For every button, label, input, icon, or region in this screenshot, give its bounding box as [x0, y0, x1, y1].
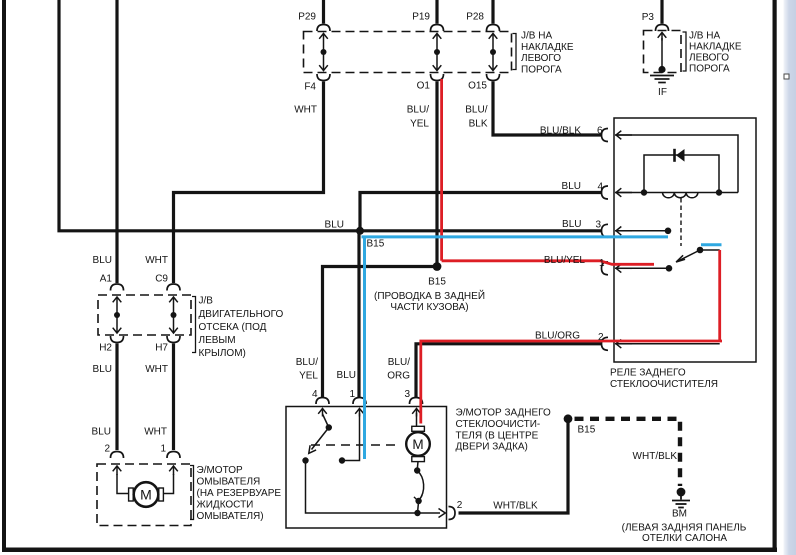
relay wire pin1 to contact	[615, 267, 669, 269]
svg-text:BLU: BLU	[562, 219, 581, 230]
connector relay pin 6 female	[602, 129, 609, 142]
wiper motor lower stem	[416, 462, 419, 470]
ground IF bars	[650, 76, 674, 83]
wire BLU node down to wiper pin1	[357, 231, 360, 397]
svg-text:ТЕЛЯ (В ЦЕНТРЕ: ТЕЛЯ (В ЦЕНТРЕ	[456, 430, 539, 441]
red trace along O1 wire	[440, 79, 443, 261]
svg-text:M: M	[140, 487, 152, 503]
svg-text:A1: A1	[100, 274, 113, 285]
svg-text:4: 4	[312, 389, 318, 400]
svg-text:ПОРОГА: ПОРОГА	[689, 64, 730, 75]
label bracket J/B sill	[513, 34, 517, 70]
connector P19 female	[431, 25, 444, 32]
rear wiper motor M2	[406, 426, 430, 461]
red trace BLU/ORG to wiper motor	[421, 341, 722, 424]
pin arrow washer pin2	[113, 466, 122, 475]
relay switch arm	[676, 250, 700, 262]
page border left	[2, 0, 6, 551]
svg-text:6: 6	[597, 126, 603, 137]
wiper wire pin4 to switch	[323, 414, 329, 428]
wiper switch top contact	[326, 424, 332, 430]
svg-text:B15: B15	[428, 277, 446, 288]
svg-text:BLU: BLU	[562, 181, 581, 192]
svg-text:4: 4	[597, 182, 603, 193]
diode D1	[673, 149, 684, 162]
svg-text:YEL: YEL	[410, 119, 429, 130]
feedthrough P19-O1	[433, 34, 442, 71]
pin arrow relay pin 4	[616, 188, 632, 197]
wiper park switch arm	[309, 428, 329, 454]
washer wire pin2 to motor	[117, 474, 129, 494]
node B15 on O1 wire	[433, 262, 442, 271]
connector washer pin2 female	[111, 452, 124, 459]
pin arrow relay pin 3	[616, 227, 632, 236]
svg-text:(ЛЕВАЯ ЗАДНЯЯ ПАНЕЛЬ: (ЛЕВАЯ ЗАДНЯЯ ПАНЕЛЬ	[622, 523, 747, 534]
relay actuation dashed link	[680, 198, 682, 246]
svg-text:BLU: BLU	[337, 370, 356, 381]
svg-text:ЧАСТИ КУЗОВА): ЧАСТИ КУЗОВА)	[390, 302, 468, 313]
connector wiper pin2 female	[449, 507, 456, 520]
svg-text:2: 2	[104, 444, 110, 455]
node BLU B15	[356, 227, 364, 235]
red trace to relay pin1	[442, 261, 654, 265]
svg-text:C9: C9	[155, 274, 168, 285]
svg-text:J/B: J/B	[199, 296, 214, 307]
pin arrow washer pin1	[169, 466, 178, 475]
wire BLU node up to relay pin4 row	[360, 193, 602, 231]
feedthrough A1-H2	[113, 297, 122, 333]
svg-text:2: 2	[598, 332, 604, 343]
svg-text:BLU/: BLU/	[407, 105, 429, 116]
svg-text:BLU/BLK: BLU/BLK	[540, 126, 581, 137]
connector P3 female	[656, 25, 669, 32]
wire WHT/BLK wiper pin2 to B15	[459, 420, 569, 513]
wire BLU/BLK O15 to relay pin6	[493, 82, 602, 136]
wiper mech dashed link	[311, 444, 400, 446]
connector O15 female	[487, 74, 500, 81]
relay wire pivot to right	[700, 249, 720, 251]
relay box	[614, 118, 756, 362]
pin arrow P3	[658, 33, 667, 41]
park cam arrowhead	[414, 495, 422, 501]
wire vertical to connector A1	[115, 0, 118, 283]
pin arrow relay pin 2	[616, 340, 632, 349]
label bracket J/B engine	[192, 297, 196, 353]
svg-text:BLU: BLU	[93, 364, 112, 375]
wiper common contact	[339, 457, 345, 463]
svg-text:P28: P28	[466, 12, 484, 23]
relay contact pin3	[665, 228, 672, 235]
wiper wire switch to pin2 exit	[306, 461, 441, 514]
junction block J/B P3	[644, 31, 682, 73]
svg-text:НАКЛАДКЕ: НАКЛАДКЕ	[689, 42, 742, 53]
svg-text:B15: B15	[367, 239, 385, 250]
feedthrough C9-H7	[169, 297, 178, 333]
connector wiper pin3 female	[410, 398, 423, 405]
svg-text:СТЕКЛООЧИСТИ-: СТЕКЛООЧИСТИ-	[456, 419, 541, 430]
svg-text:F4: F4	[304, 82, 316, 93]
wiper switch lower contact	[302, 457, 308, 463]
feedthrough P29-F4	[319, 34, 328, 71]
svg-text:КРЫЛОМ): КРЫЛОМ)	[199, 348, 246, 359]
selection handle	[784, 74, 789, 79]
svg-text:Э/МОТОР ЗАДНЕГО: Э/МОТОР ЗАДНЕГО	[456, 408, 552, 419]
relay coil L1	[663, 193, 698, 198]
app background strip right	[784, 0, 796, 555]
svg-text:WHT/BLK: WHT/BLK	[633, 451, 678, 462]
wire dashed WHT/BLK to ground BM	[575, 419, 681, 486]
svg-text:BLU: BLU	[325, 220, 344, 231]
connector O1 female	[431, 74, 444, 81]
ground BM bars	[672, 492, 690, 508]
connector F4 female	[317, 74, 330, 81]
relay switch pivot	[697, 247, 704, 254]
svg-text:3: 3	[595, 220, 601, 231]
svg-text:P29: P29	[298, 12, 316, 23]
relay wire pin6 to coil right	[615, 135, 738, 193]
cyan trace pin3 row	[362, 235, 669, 238]
relay wire pin4 coil row	[615, 192, 738, 194]
svg-text:1: 1	[349, 389, 355, 400]
wire BLU H2 down to washer pin2	[115, 344, 118, 451]
wire P19 from top	[435, 0, 438, 24]
svg-text:ЖИДКОСТИ: ЖИДКОСТИ	[197, 500, 254, 511]
park cam arc	[417, 471, 423, 501]
washer motor M1	[129, 482, 164, 507]
svg-text:ЛЕВОГО: ЛЕВОГО	[521, 53, 561, 64]
page border right	[773, 0, 777, 552]
svg-text:3: 3	[404, 389, 410, 400]
pin arrow wiper pin4	[318, 409, 327, 417]
svg-text:РЕЛЕ ЗАДНЕГО: РЕЛЕ ЗАДНЕГО	[610, 368, 686, 379]
svg-text:СТЕКЛООЧИСТИТЕЛЯ: СТЕКЛООЧИСТИТЕЛЯ	[610, 379, 718, 390]
connector wiper pin4 female	[316, 398, 329, 405]
svg-text:O1: O1	[417, 81, 431, 92]
cyan trace inside relay	[701, 243, 722, 246]
svg-text:P19: P19	[412, 12, 430, 23]
rear wiper motor box	[286, 407, 447, 529]
wire P29 from top	[322, 0, 325, 24]
relay contact pin1	[666, 265, 673, 272]
svg-text:1: 1	[599, 258, 605, 269]
washer motor box	[97, 464, 191, 526]
washer wire pin1 to motor	[163, 474, 174, 494]
wire BLU/YEL node to wiper pin4	[323, 267, 438, 398]
wire P28 from top	[491, 0, 494, 24]
feedthrough P28-O15	[489, 34, 498, 71]
svg-text:ОМЫВАТЕЛЯ): ОМЫВАТЕЛЯ)	[197, 511, 264, 522]
connector H7 female	[167, 336, 180, 343]
connector H2 female	[111, 336, 124, 343]
wiper wire pin3 to motor	[416, 413, 418, 427]
svg-text:WHT/BLK: WHT/BLK	[493, 501, 538, 512]
svg-text:BLU/YEL: BLU/YEL	[544, 255, 586, 266]
svg-text:BLU: BLU	[93, 255, 112, 266]
svg-text:ЛЕВОГО: ЛЕВОГО	[689, 53, 729, 64]
svg-text:BLU/ORG: BLU/ORG	[535, 331, 580, 342]
svg-text:BLK: BLK	[469, 119, 488, 130]
svg-text:ПОРОГА: ПОРОГА	[521, 64, 562, 75]
wire P3 from top	[660, 0, 663, 24]
svg-text:2: 2	[457, 500, 463, 511]
park cam upper node	[414, 467, 420, 473]
junction bottom run	[414, 510, 420, 516]
pin arrow wiper pin2 exit	[439, 509, 446, 518]
node B15 right	[564, 414, 573, 423]
connector relay pin 1 female	[602, 262, 609, 275]
pin arrow relay pin 6	[616, 131, 632, 140]
svg-text:(НА РЕЗЕРВУАРЕ: (НА РЕЗЕРВУАРЕ	[197, 488, 282, 499]
svg-text:ДВИГАТЕЛЬНОГО: ДВИГАТЕЛЬНОГО	[199, 309, 284, 320]
svg-text:J/B НА: J/B НА	[689, 31, 720, 42]
connector relay pin 3 female	[602, 224, 609, 237]
park cam lower node	[415, 498, 421, 504]
node coil right	[716, 189, 722, 195]
svg-text:WHT: WHT	[145, 255, 168, 266]
svg-text:IF: IF	[658, 87, 667, 98]
svg-text:H2: H2	[99, 343, 112, 354]
svg-text:WHT: WHT	[145, 364, 168, 375]
svg-text:(ПРОВОДКА В ЗАДНЕЙ: (ПРОВОДКА В ЗАДНЕЙ	[374, 289, 485, 302]
red trace inside relay vertical	[718, 250, 721, 341]
label bracket J/B P3	[683, 32, 687, 71]
svg-text:B15: B15	[578, 425, 596, 436]
svg-text:ОТЕЛКИ САЛОНА: ОТЕЛКИ САЛОНА	[642, 533, 727, 544]
svg-text:WHT: WHT	[144, 427, 167, 438]
svg-text:НАКЛАДКЕ: НАКЛАДКЕ	[521, 42, 574, 53]
pin arrow relay pin 1	[616, 264, 632, 273]
connector P28 female	[487, 25, 500, 32]
relay wire pin2 row	[615, 343, 720, 345]
connector P29 female	[317, 25, 330, 32]
connector relay pin 4 female	[602, 186, 609, 199]
ground dot BM	[677, 488, 686, 497]
connector washer pin1 female	[167, 452, 180, 459]
svg-text:J/B НА: J/B НА	[521, 31, 552, 42]
wire BLU node right to relay pin3	[358, 229, 602, 232]
svg-text:ВМ: ВМ	[672, 509, 687, 520]
svg-text:BLU/: BLU/	[465, 105, 487, 116]
relay wire pin3 to contact	[615, 230, 668, 232]
junction block J/B left sill	[304, 32, 512, 73]
svg-text:ОТСЕКА (ПОД: ОТСЕКА (ПОД	[199, 322, 267, 333]
svg-text:P3: P3	[642, 12, 655, 23]
ground dot IF	[658, 66, 665, 73]
connector relay pin 2 female	[602, 337, 609, 350]
svg-text:ORG: ORG	[387, 371, 410, 382]
svg-text:BLU/: BLU/	[296, 357, 318, 368]
svg-text:O15: O15	[468, 81, 487, 92]
svg-text:ЛЕВЫМ: ЛЕВЫМ	[199, 335, 236, 346]
pin arrow wiper pin1	[355, 409, 364, 417]
svg-text:ОМЫВАТЕЛЯ: ОМЫВАТЕЛЯ	[197, 476, 261, 487]
park cam stem to bottom	[418, 501, 419, 513]
pin arrow wiper pin3	[412, 409, 421, 417]
svg-text:YEL: YEL	[299, 371, 318, 382]
node coil left	[641, 189, 647, 195]
wire WHT F4 to C9	[174, 82, 324, 284]
wire P3 to ground IF	[661, 38, 663, 68]
junction block J/B engine bay	[98, 295, 191, 335]
svg-text:M: M	[412, 437, 423, 452]
svg-text:ДВЕРИ ЗАДКА): ДВЕРИ ЗАДКА)	[456, 442, 528, 453]
svg-text:BLU: BLU	[92, 427, 111, 438]
cyan trace down to wiper motor	[363, 237, 366, 459]
wiper wire pin1 to common contact	[345, 413, 360, 461]
svg-text:WHT: WHT	[294, 105, 317, 116]
connector A1 female	[111, 284, 124, 291]
svg-text:1: 1	[160, 444, 166, 455]
wire BLU/YEL O1 down to node B15	[435, 82, 438, 267]
svg-text:Э/МОТОР: Э/МОТОР	[197, 465, 244, 476]
wire BLU/ORG wiper pin3 to relay pin2	[416, 344, 602, 397]
page border bottom	[2, 548, 777, 553]
svg-text:BLU/: BLU/	[388, 357, 410, 368]
relay diode branch	[644, 155, 719, 193]
label bracket washer text	[190, 466, 194, 520]
wire left vertical to BLU junction	[59, 0, 358, 231]
wire WHT H7 down to washer pin1	[172, 344, 175, 451]
connector wiper pin1 female	[353, 398, 366, 405]
svg-text:H7: H7	[155, 343, 168, 354]
connector C9 female	[167, 284, 180, 291]
